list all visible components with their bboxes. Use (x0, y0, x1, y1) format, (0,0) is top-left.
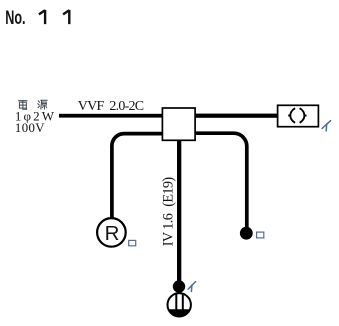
title No.11 (5, 6, 69, 29)
wire: junction box left branch down to lamp receptacle R (112, 134, 163, 219)
outlet (コンセント) symbol (168, 293, 191, 317)
svg-text:VVF 2.0-2C: VVF 2.0-2C (78, 99, 144, 114)
ceiling rosette (角形引掛シーリング) box (278, 105, 319, 126)
kanji 電 (19, 101, 27, 110)
switch ロ (dot) (240, 227, 253, 240)
lamp receptacle R (97, 218, 126, 247)
kanji 源 (38, 100, 47, 109)
ceiling rosette ( ) symbol (288, 108, 306, 123)
label イ (ceiling rosette) (322, 121, 331, 131)
label イ (switch) (188, 282, 196, 292)
svg-text:IV 1.6(E19): IV 1.6(E19) (160, 177, 176, 247)
wire: conduit IV1.6(E19) from junction box down to switch イ (177, 139, 181, 283)
svg-text:R: R (105, 222, 120, 245)
wire: junction box right branch down to switch ロ (194, 133, 247, 227)
power source label 電源 1φ2W 100V (19, 100, 47, 109)
label ロ (lamp receptacle) (129, 240, 136, 245)
wire: power feed from source to junction box (59, 114, 164, 118)
svg-text:100V: 100V (15, 121, 45, 135)
label ロ (switch) (257, 232, 264, 238)
switch イ (dot) (173, 280, 185, 292)
junction box (outlet box) (162, 108, 195, 140)
svg-text:No.: No. (5, 6, 25, 29)
wire: junction box to ceiling rosette (right) (194, 114, 278, 118)
